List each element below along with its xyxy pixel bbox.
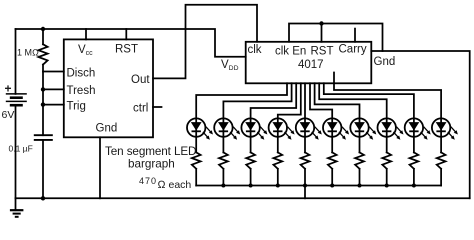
svg-text:RST: RST	[115, 44, 138, 56]
node RST tie junction	[319, 21, 323, 25]
wire: 4017 out pin to LED5	[304, 83, 306, 118]
battery B1 6V	[2, 29, 27, 198]
node Trig junction	[41, 102, 45, 106]
op-amp U1 555 timer box	[64, 39, 153, 137]
LED D6	[323, 118, 349, 152]
wire: 4017 out pin to LED8	[319, 83, 387, 118]
wire: 4017 out pin to LED3	[251, 83, 297, 118]
LED D3	[241, 118, 267, 152]
resistor R10 470 Ohm	[410, 152, 419, 185]
svg-text:6V: 6V	[2, 109, 15, 121]
node cathode rail junction	[303, 184, 307, 188]
svg-text:0.1 µF: 0.1 µF	[9, 144, 33, 154]
node: rail to R1 junction	[41, 27, 45, 31]
wire: 4017 out pin to LED7	[315, 83, 360, 118]
wire: top Vcc rail	[16, 29, 246, 57]
resistor R3 470 Ohm	[219, 152, 228, 185]
resistor R5 470 Ohm	[273, 152, 282, 185]
node: C1 to ground rail	[41, 196, 45, 200]
svg-text:clk En: clk En	[275, 46, 306, 58]
wire: Vcc pin drop	[85, 29, 87, 39]
capacitor C1 0.1 uF	[9, 135, 53, 198]
wire: clkEn/RST tie bus	[289, 24, 383, 52]
svg-text:Tresh: Tresh	[67, 85, 96, 97]
resistor R7 470 Ohm	[328, 152, 337, 185]
resistor R8 470 Ohm	[355, 152, 364, 185]
wire: LED cathode rail	[196, 185, 441, 187]
svg-text:clk: clk	[248, 44, 262, 56]
LED D8	[378, 118, 404, 152]
svg-text:ctrl: ctrl	[133, 103, 148, 115]
node cathode rail junction	[249, 184, 253, 188]
wire: ctrl stub	[153, 106, 162, 108]
LED D10	[432, 118, 458, 152]
node cathode rail junction	[276, 184, 280, 188]
wire: 4017 out pin to LED6	[310, 83, 332, 118]
svg-text:Ω each: Ω each	[158, 179, 192, 191]
wire Disch	[43, 71, 64, 73]
LED D4	[269, 118, 295, 152]
wire Trig	[43, 104, 64, 106]
svg-text:470: 470	[139, 176, 157, 186]
svg-text:Ten segment LED: Ten segment LED	[105, 145, 196, 158]
wire: 555 RST pin drop	[125, 29, 127, 39]
svg-text:+: +	[5, 82, 12, 96]
wire: 4017 out pin to LED9	[324, 83, 414, 118]
wire: Carry stub	[354, 29, 356, 42]
wire: 4017 out pin to LED1	[196, 83, 287, 118]
node cathode rail junction	[358, 184, 362, 188]
svg-text:Gnd: Gnd	[374, 56, 396, 68]
LED D5	[296, 118, 322, 152]
svg-text:Trig: Trig	[67, 101, 86, 113]
node cathode rail junction	[221, 184, 225, 188]
node cathode rail junction	[412, 184, 416, 188]
resistor R1 1 MOhm	[17, 29, 48, 72]
wire: 4017 out pin to LED4	[278, 83, 301, 118]
LED D9	[405, 118, 431, 152]
node cathode rail junction	[385, 184, 389, 188]
wire: bottom ground rail	[16, 197, 470, 199]
svg-text:Disch: Disch	[67, 68, 96, 80]
LED D7	[350, 118, 376, 152]
wire: 555 Gnd pin to ground rail	[99, 137, 101, 198]
ground	[10, 198, 24, 217]
resistor R11 470 Ohm	[437, 152, 446, 185]
wire: cathode rail to ground rail	[304, 186, 306, 199]
wire: 4017 out pin to LED10	[334, 73, 441, 119]
wire Tresh	[43, 88, 64, 90]
LED D1	[187, 118, 213, 152]
counter U2 4017 box	[246, 42, 372, 84]
svg-text:4017: 4017	[298, 59, 324, 71]
wire: 4017 out pin to LED2	[223, 83, 291, 118]
resistor R4 470 Ohm	[246, 152, 255, 185]
svg-text:1 MΩ: 1 MΩ	[17, 48, 39, 58]
wire: Out to 4017 clk	[153, 5, 257, 79]
resistor R6 470 Ohm	[301, 152, 310, 185]
svg-text:bargraph: bargraph	[128, 158, 175, 171]
svg-text:Out: Out	[131, 74, 150, 86]
svg-text:Gnd: Gnd	[96, 123, 118, 135]
svg-text:RST: RST	[311, 46, 334, 58]
svg-text:Carry: Carry	[339, 44, 367, 56]
node Tresh junction	[41, 87, 45, 91]
node cathode rail junction	[330, 184, 334, 188]
wire: 4017 RST drop	[321, 24, 323, 42]
resistor R2 470 Ohm	[192, 152, 201, 185]
wire: 4017 Gnd to right rail	[371, 51, 469, 198]
LED D2	[214, 118, 240, 152]
resistor R9 470 Ohm	[382, 152, 391, 185]
wire: node column to Disch/Tresh/Trig/C1	[42, 72, 44, 136]
